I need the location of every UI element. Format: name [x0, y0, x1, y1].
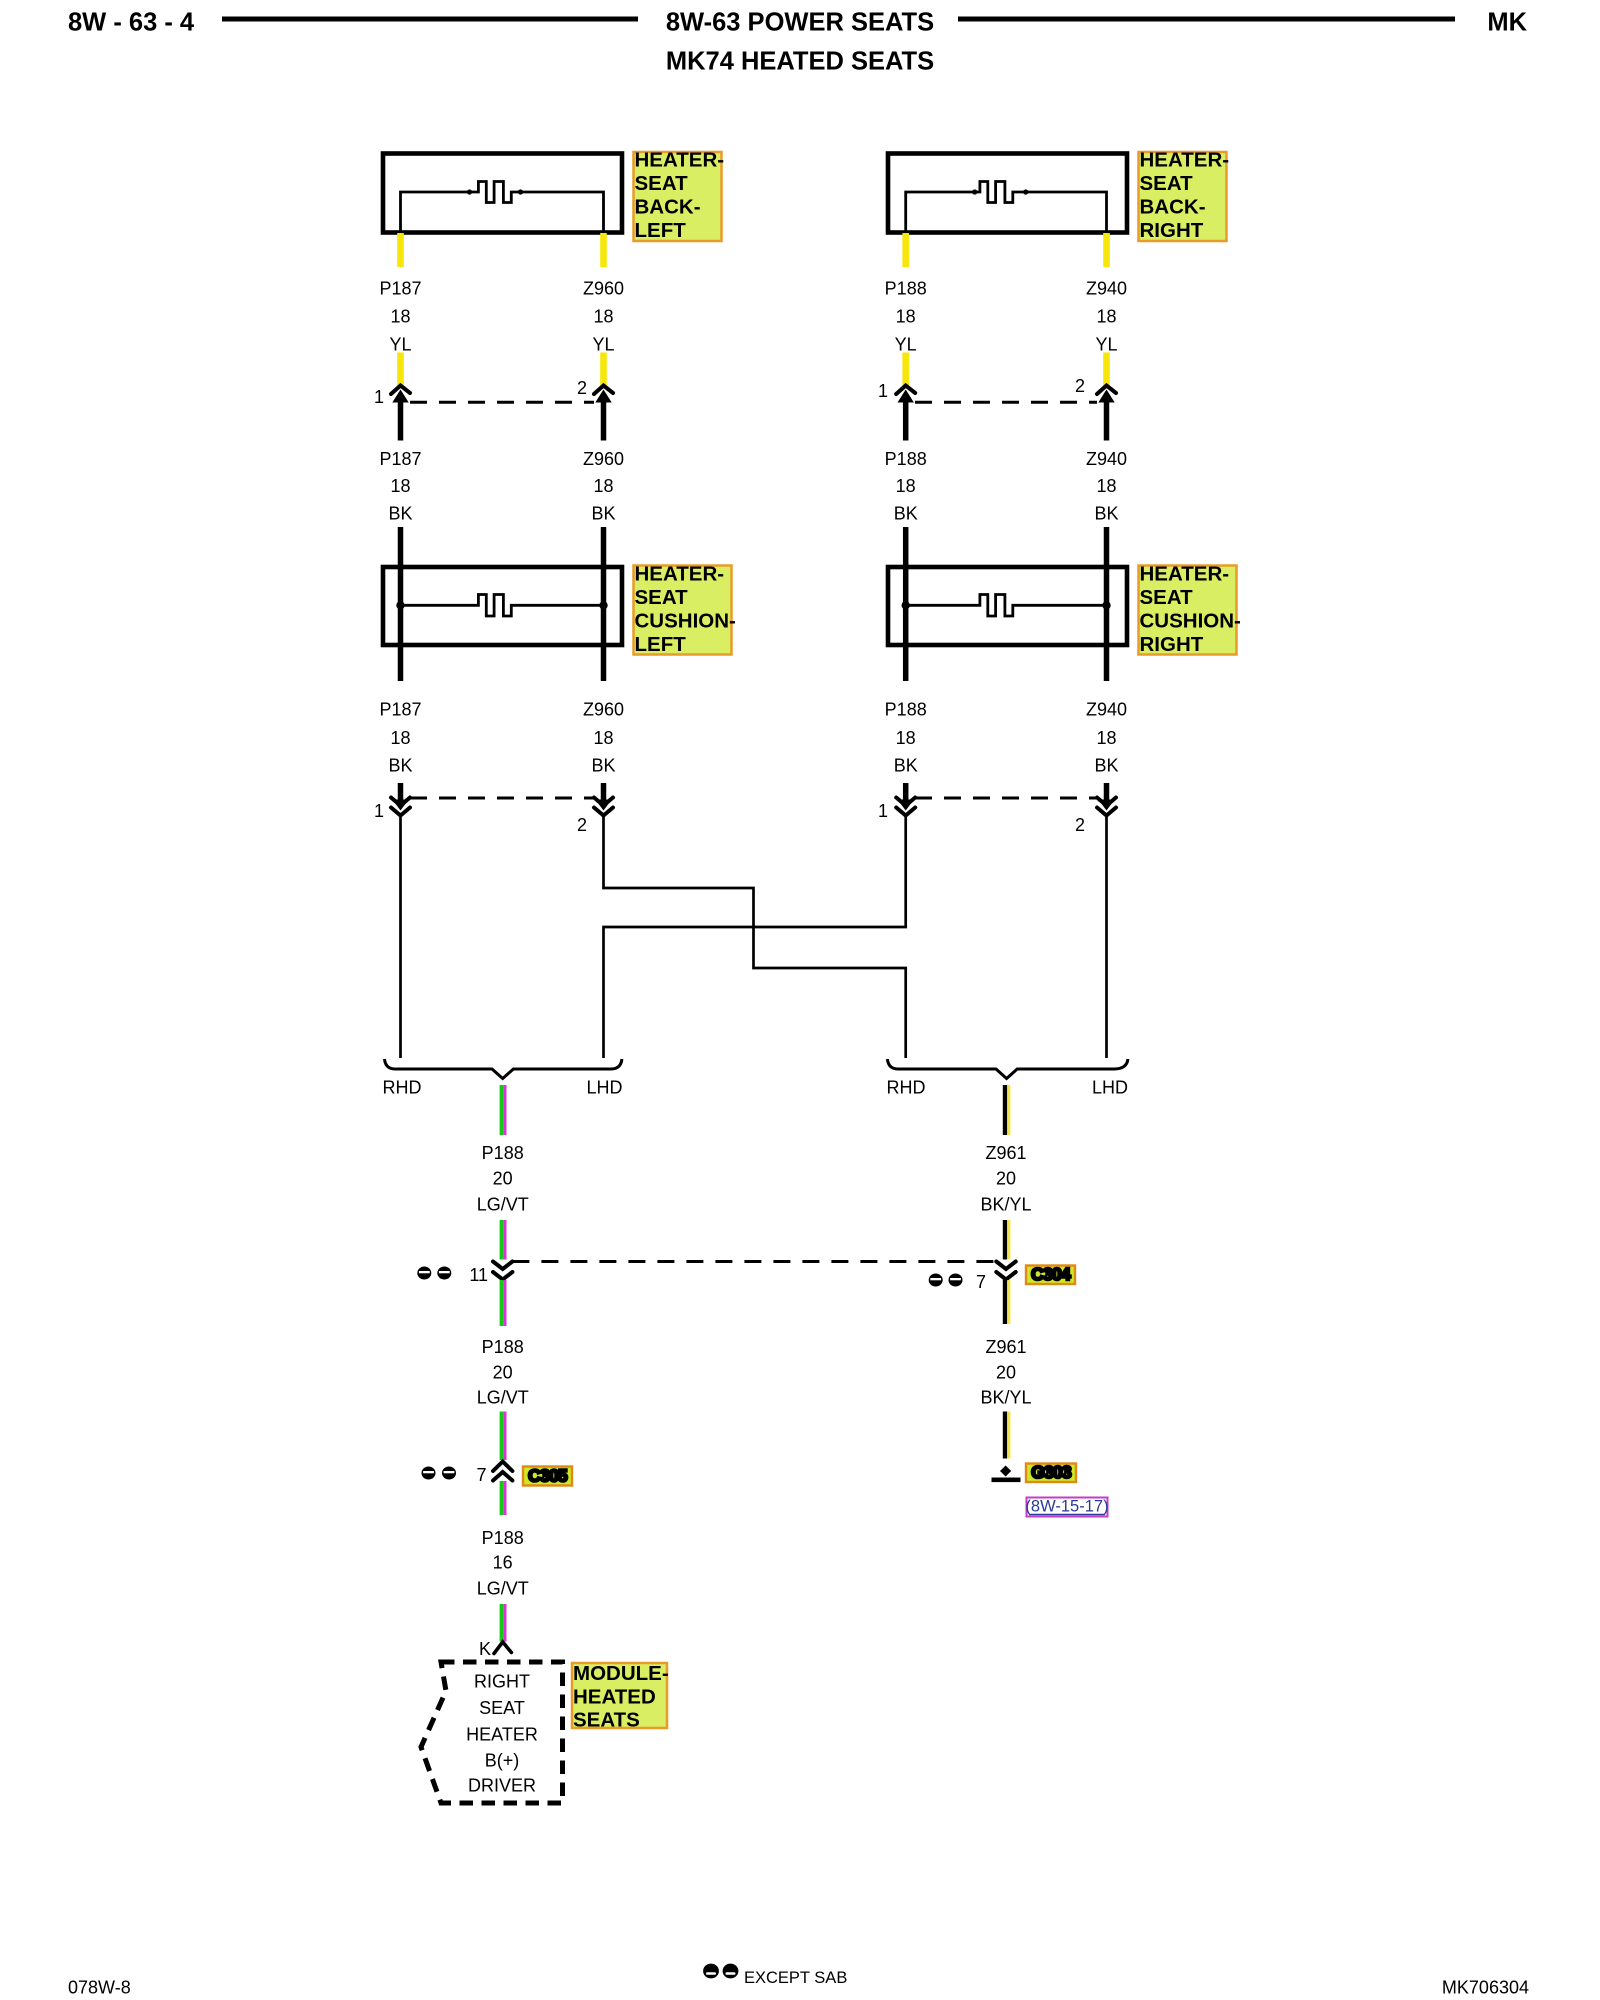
svg-text:C305: C305 [528, 1466, 568, 1486]
svg-text:EXCEPT SAB: EXCEPT SAB [744, 1969, 847, 1987]
label box: HEATER-SEAT CUSHION-RIGHT [1139, 566, 1237, 655]
svg-text:LG/VT: LG/VT [477, 1579, 529, 1599]
wire P188 LG/VT to module pin K [500, 1604, 504, 1642]
in-line connector pin 1 (lower, P188) [896, 798, 915, 806]
svg-text:18: 18 [390, 307, 410, 327]
svg-text:BK: BK [894, 756, 918, 776]
wire P187 BK stem below connector [398, 400, 404, 441]
svg-text:LG/VT: LG/VT [477, 1388, 529, 1408]
wire from left pin 2 jogging to right bracket (RHD) [604, 815, 906, 1058]
module-heated-seats dashed box [421, 1662, 563, 1803]
svg-text:Z960: Z960 [583, 449, 624, 469]
wire Z960 YL stub below back box [600, 233, 607, 267]
svg-text:18: 18 [593, 728, 613, 748]
svg-text:P188: P188 [885, 449, 927, 469]
svg-text:2: 2 [1075, 376, 1085, 396]
heating element symbol inside HEATER-SEAT BACK-RIGHT [906, 182, 1107, 232]
in-line connector pin 1 (upper, P187) [391, 386, 410, 395]
ground label G303 [1026, 1464, 1076, 1483]
svg-text:18: 18 [1096, 307, 1116, 327]
svg-text:7: 7 [976, 1272, 986, 1292]
dashed mate line C304 pin11 to pin7 [512, 1260, 996, 1263]
in-line connector pin 2 (lower, Z940) [1097, 798, 1116, 806]
heating element symbol inside HEATER-SEAT CUSHION-RIGHT [906, 595, 1107, 617]
svg-text:LEFT: LEFT [635, 633, 687, 656]
connector label C305 [523, 1467, 572, 1486]
svg-text:BK: BK [388, 756, 412, 776]
svg-text:18: 18 [390, 476, 410, 496]
svg-text:8W - 63 - 4: 8W - 63 - 4 [68, 9, 195, 37]
wire P188 LG/VT stub below left brace [500, 1085, 504, 1135]
svg-text:BACK-: BACK- [635, 196, 701, 219]
connector dashed mate line lower-left [410, 797, 594, 800]
svg-text:18: 18 [1096, 728, 1116, 748]
svg-text:16: 16 [493, 1553, 513, 1573]
wire Z940 YL stub below back box [1103, 233, 1110, 267]
svg-text:P187: P187 [379, 279, 421, 299]
svg-text:18: 18 [593, 307, 613, 327]
svg-text:CUSHION-: CUSHION- [1140, 610, 1241, 633]
except-SAB marker ovals (pin 11 row) [417, 1267, 431, 1280]
heater element box: HEATER-SEAT BACK-LEFT [383, 154, 622, 233]
header rule right [958, 17, 1455, 22]
wire P188 LG/VT above C305 [500, 1412, 504, 1461]
svg-text:BK: BK [894, 504, 918, 524]
ground sheet reference (8W-15-17) [1027, 1498, 1108, 1517]
svg-text:Z940: Z940 [1086, 279, 1127, 299]
connector label C304 [1026, 1266, 1075, 1285]
svg-text:P187: P187 [379, 700, 421, 720]
svg-text:7: 7 [476, 1465, 486, 1485]
svg-text:YL: YL [895, 335, 917, 355]
heater element box: HEATER-SEAT CUSHION-LEFT [383, 567, 622, 645]
svg-text:P188: P188 [885, 700, 927, 720]
connector C304 pin 11 chevrons [493, 1262, 512, 1270]
wire Z961 BK/YL below pin 7 [1003, 1280, 1007, 1324]
svg-text:Z961: Z961 [985, 1143, 1026, 1163]
label box: HEATER-SEAT BACK-LEFT [634, 152, 722, 241]
svg-text:BK/YL: BK/YL [980, 1388, 1031, 1408]
wire P188 YL stub above connector [902, 353, 909, 387]
wire Z960 BK above lower connector [601, 783, 607, 802]
svg-text:18: 18 [896, 307, 916, 327]
svg-text:MK74 HEATED SEATS: MK74 HEATED SEATS [666, 48, 934, 76]
svg-text:RIGHT: RIGHT [1140, 633, 1204, 656]
heater element box: HEATER-SEAT BACK-RIGHT [888, 154, 1127, 233]
svg-text:CUSHION-: CUSHION- [635, 610, 736, 633]
svg-text:1: 1 [878, 381, 888, 401]
svg-text:G303: G303 [1031, 1462, 1072, 1482]
in-line connector pin 2 (lower, Z960) [594, 798, 613, 806]
svg-text:YL: YL [1095, 335, 1117, 355]
wire Z960 YL stub above connector [600, 353, 607, 387]
wire P188 LG/VT below C305 [500, 1481, 504, 1515]
svg-text:HEATER-: HEATER- [1140, 149, 1230, 172]
header rule left [222, 17, 638, 22]
svg-text:BK: BK [388, 504, 412, 524]
svg-text:SEAT: SEAT [635, 586, 689, 609]
junction dots HEATER-SEAT CUSHION-RIGHT [902, 601, 910, 609]
svg-text:20: 20 [493, 1363, 513, 1383]
wire Z961 BK/YL above C304 pin 7 [1003, 1220, 1007, 1260]
in-line connector pin 2 (upper, Z960) [594, 386, 613, 395]
svg-text:MODULE-: MODULE- [573, 1662, 669, 1685]
wire RHD left column down to bracket [399, 815, 402, 1058]
svg-text:SEAT: SEAT [479, 1698, 525, 1718]
svg-text:P187: P187 [379, 449, 421, 469]
wire P187 BK through cushion box [398, 527, 404, 681]
wire Z961 BK/YL stub below right brace [1003, 1085, 1007, 1135]
svg-text:C304: C304 [1031, 1264, 1071, 1284]
svg-text:1: 1 [374, 801, 384, 821]
heater element box: HEATER-SEAT CUSHION-RIGHT [888, 567, 1127, 645]
in-line connector pin 1 (upper, P188) [896, 386, 915, 395]
svg-text:078W-8: 078W-8 [68, 1978, 131, 1998]
svg-text:20: 20 [493, 1169, 513, 1189]
svg-text:Z961: Z961 [985, 1337, 1026, 1357]
brace joining RHD/LHD wires (right) [887, 1059, 1128, 1079]
in-line connector pin 2 (upper, Z940) [1097, 386, 1116, 395]
wire Z960 BK through cushion box [601, 527, 607, 681]
connector C305 chevrons [493, 1462, 512, 1472]
svg-text:SEATS: SEATS [573, 1709, 640, 1732]
in-line connector pin 1 (lower, P187) [391, 798, 410, 806]
svg-text:SEAT: SEAT [1140, 586, 1194, 609]
svg-text:Z940: Z940 [1086, 700, 1127, 720]
wire P188 YL stub below back box [902, 233, 909, 267]
label box: MODULE-HEATED SEATS [572, 1663, 667, 1728]
wire Z961 BK/YL to ground [1003, 1412, 1007, 1459]
svg-text:20: 20 [996, 1363, 1016, 1383]
connector dashed mate line upper-right [915, 401, 1097, 404]
svg-text:P188: P188 [885, 279, 927, 299]
wire Z940 YL stub above connector [1103, 353, 1110, 387]
except-SAB marker ovals (C305 row) [422, 1467, 436, 1480]
svg-text:SEAT: SEAT [1140, 172, 1194, 195]
svg-text:Z960: Z960 [583, 700, 624, 720]
svg-text:8W-63 POWER SEATS: 8W-63 POWER SEATS [666, 9, 934, 37]
junction dots HEATER-SEAT CUSHION-LEFT [396, 601, 404, 609]
wire P188 BK through cushion box [903, 527, 909, 681]
svg-text:P188: P188 [482, 1528, 524, 1548]
svg-text:P188: P188 [482, 1337, 524, 1357]
wire Z960 BK stem below connector [601, 400, 607, 441]
svg-text:MK706304: MK706304 [1442, 1978, 1529, 1998]
svg-text:LG/VT: LG/VT [477, 1195, 529, 1215]
connector dashed mate line lower-right [915, 797, 1097, 800]
svg-text:RHD: RHD [383, 1078, 422, 1098]
svg-text:HEATER: HEATER [466, 1725, 538, 1745]
wire P188 BK stem below connector [903, 400, 909, 441]
svg-text:BK: BK [591, 504, 615, 524]
svg-text:BK: BK [591, 756, 615, 776]
svg-text:LHD: LHD [586, 1078, 622, 1098]
wire Z940 BK above lower connector [1104, 783, 1110, 802]
svg-text:18: 18 [390, 728, 410, 748]
label box: HEATER-SEAT BACK-RIGHT [1139, 152, 1227, 241]
svg-text:LHD: LHD [1092, 1078, 1128, 1098]
connector dashed mate line upper-left [410, 401, 594, 404]
svg-text:18: 18 [1096, 476, 1116, 496]
wire Z940 BK through cushion box [1104, 527, 1110, 681]
svg-text:18: 18 [896, 728, 916, 748]
svg-text:BK/YL: BK/YL [980, 1195, 1031, 1215]
svg-text:18: 18 [896, 476, 916, 496]
ground symbol G303 [1000, 1466, 1011, 1477]
wire LHD right column down to bracket [1105, 815, 1108, 1058]
svg-text:Z940: Z940 [1086, 449, 1127, 469]
svg-text:2: 2 [577, 815, 587, 835]
wire Z940 BK stem below connector [1104, 400, 1110, 441]
svg-text:RIGHT: RIGHT [1140, 219, 1204, 242]
brace joining RHD/LHD wires (left) [385, 1059, 622, 1079]
svg-text:BK: BK [1094, 756, 1118, 776]
heating element symbol inside HEATER-SEAT CUSHION-LEFT [401, 595, 604, 617]
svg-text:2: 2 [1075, 815, 1085, 835]
svg-text:RIGHT: RIGHT [474, 1672, 530, 1692]
svg-text:HEATER-: HEATER- [635, 563, 725, 586]
svg-text:YL: YL [592, 335, 614, 355]
svg-text:HEATER-: HEATER- [635, 149, 725, 172]
svg-text:Z960: Z960 [583, 279, 624, 299]
svg-text:2: 2 [577, 378, 587, 398]
wire P187 BK above lower connector [398, 783, 404, 802]
svg-text:11: 11 [469, 1265, 488, 1285]
svg-text:BK: BK [1094, 504, 1118, 524]
footer except-SAB legend [703, 1964, 719, 1979]
wire from right pin 1 jogging to left bracket (LHD) [604, 815, 906, 1058]
svg-text:RHD: RHD [887, 1078, 926, 1098]
svg-text:LEFT: LEFT [635, 219, 687, 242]
svg-text:YL: YL [389, 335, 411, 355]
wire P187 YL stub below back box [397, 233, 404, 267]
wire P188 BK above lower connector [903, 783, 909, 802]
svg-text:1: 1 [878, 801, 888, 821]
heating element symbol inside HEATER-SEAT BACK-LEFT [401, 182, 604, 232]
svg-text:MK: MK [1487, 9, 1527, 37]
svg-text:(8W-15-17): (8W-15-17) [1025, 1498, 1108, 1516]
wire P188 LG/VT above C304 pin 11 [500, 1220, 504, 1260]
svg-text:BACK-: BACK- [1140, 196, 1206, 219]
svg-text:18: 18 [593, 476, 613, 496]
except-SAB marker ovals (C304 row) [929, 1274, 943, 1287]
wire P187 YL stub above connector [397, 353, 404, 387]
svg-text:20: 20 [996, 1169, 1016, 1189]
svg-text:B(+): B(+) [485, 1751, 520, 1771]
svg-text:DRIVER: DRIVER [468, 1776, 536, 1796]
connector C304 pin 7 chevrons [996, 1262, 1015, 1270]
svg-text:SEAT: SEAT [635, 172, 689, 195]
svg-text:P188: P188 [482, 1143, 524, 1163]
svg-text:K: K [479, 1639, 491, 1659]
label box: HEATER-SEAT CUSHION-LEFT [634, 566, 732, 655]
svg-text:HEATER-: HEATER- [1140, 563, 1230, 586]
wire P188 LG/VT below pin 11 [500, 1280, 504, 1326]
svg-text:1: 1 [374, 387, 384, 407]
module pin K chevron [494, 1642, 511, 1654]
svg-text:HEATED: HEATED [573, 1686, 656, 1709]
